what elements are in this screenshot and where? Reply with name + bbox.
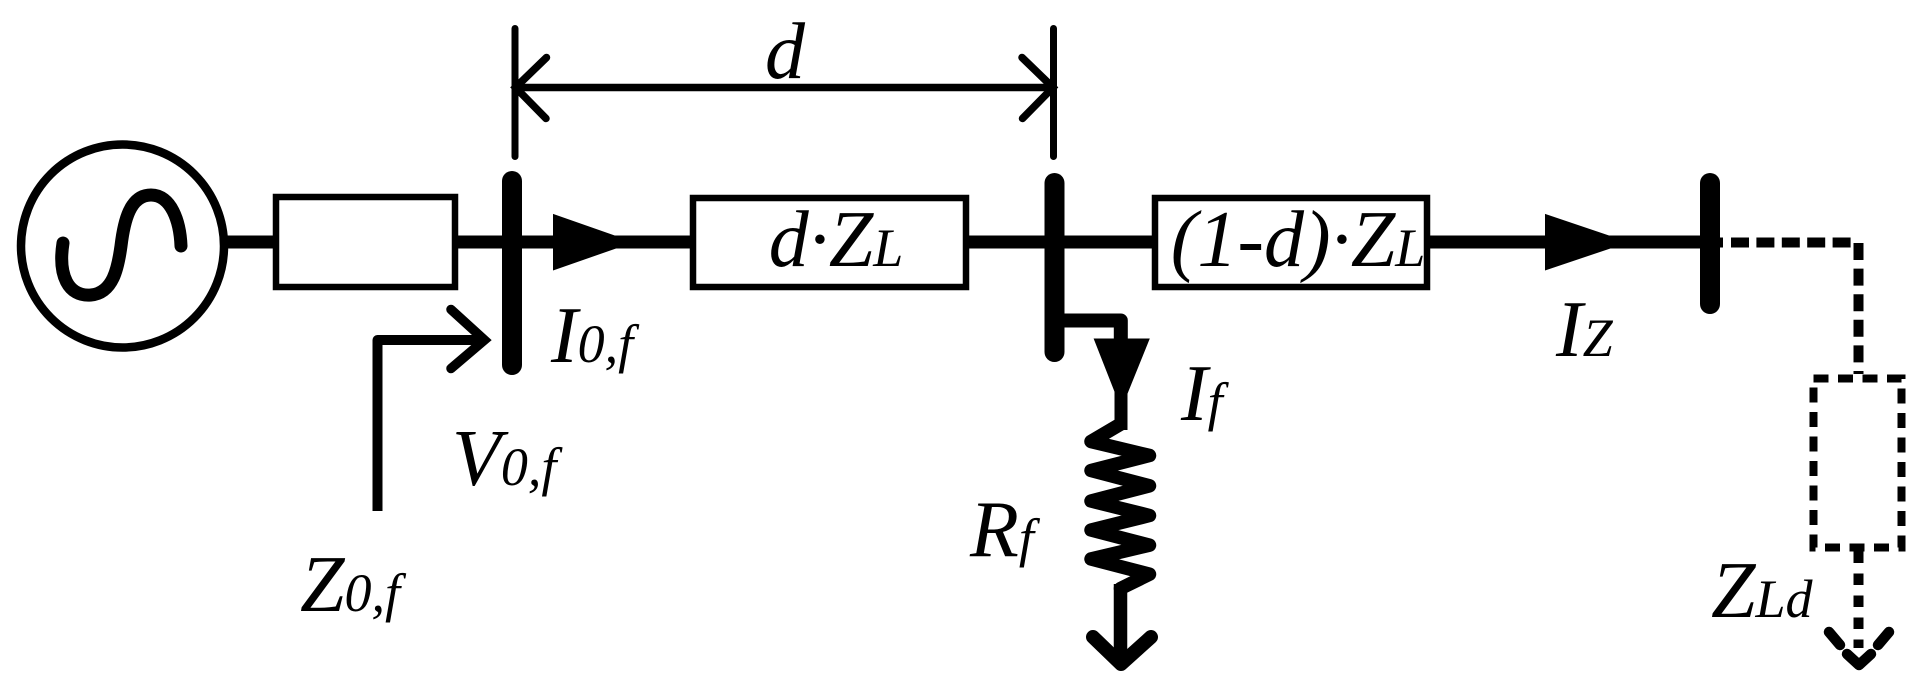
dashed ground arrow below load: left arm dash bbox=[1829, 632, 1840, 645]
fault resistor Rf zigzag bbox=[1091, 424, 1150, 589]
line impedance box d·ZL bbox=[693, 198, 966, 287]
V0,f measurement arrowhead bbox=[451, 310, 485, 369]
line impedance box (1-d)·ZL bbox=[1155, 198, 1427, 287]
V0,f measurement arrow elbow bbox=[378, 340, 482, 511]
dashed ground arrow below load: tip chevron bbox=[1847, 654, 1871, 665]
dashed wire bus 3 stub dash bbox=[1719, 238, 1724, 248]
wire below resistor bbox=[1114, 584, 1128, 656]
bus bar 1 bbox=[502, 181, 522, 365]
ground arrow below resistor bbox=[1093, 637, 1151, 664]
dimension line d bbox=[516, 84, 1053, 92]
dashed wire bus 3 to load corner bbox=[1731, 238, 1851, 248]
fault branch stub from bus 2 bbox=[1062, 321, 1121, 346]
dimension arrowhead right bbox=[1022, 58, 1053, 119]
dimension arrowhead left bbox=[516, 58, 547, 119]
current direction arrowhead IZ bbox=[1545, 214, 1629, 271]
current direction arrowhead I0,f bbox=[553, 214, 634, 271]
AC source sine wave bbox=[62, 195, 181, 295]
wire (1-d)·ZL box to bus 3 bbox=[1427, 236, 1706, 249]
bus bar 3 bbox=[1700, 183, 1720, 304]
svg-text:(1-d)·ZL: (1-d)·ZL bbox=[1171, 196, 1425, 284]
AC source circle bbox=[21, 145, 224, 348]
dashed wire below load box bbox=[1854, 552, 1864, 649]
wire impedance box to line box (through bus 1) bbox=[455, 236, 690, 249]
dashed load box ZLd bbox=[1814, 379, 1902, 548]
source impedance box bbox=[276, 197, 455, 287]
dashed wire down to load box bbox=[1854, 243, 1864, 374]
wire d·ZL box to (1-d)·ZL box (through bus 2) bbox=[966, 236, 1155, 249]
dimension tick left bbox=[512, 29, 519, 157]
wire source to impedance box bbox=[222, 236, 274, 249]
dimension tick right bbox=[1050, 29, 1057, 157]
bus bar 2 (fault point) bbox=[1045, 183, 1065, 352]
fault branch wire bbox=[1115, 340, 1128, 430]
fault current arrowhead If bbox=[1094, 339, 1150, 410]
dashed ground arrow below load: right arm dash bbox=[1878, 632, 1889, 645]
svg-text:d: d bbox=[765, 8, 806, 96]
